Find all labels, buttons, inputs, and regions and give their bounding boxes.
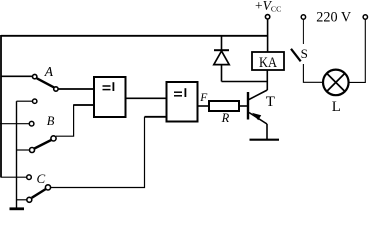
wire: U1 output to U2 input <box>126 97 167 99</box>
lamp L <box>323 70 349 96</box>
wire: lamp to right terminal <box>349 19 366 82</box>
svg-text:A: A <box>44 64 54 79</box>
wire: diode anode to collector node <box>222 81 268 83</box>
switch B <box>0 99 56 153</box>
svg-text:T: T <box>266 94 275 110</box>
terminal 220V right <box>363 15 367 19</box>
wire: second bus with ground <box>16 101 18 208</box>
wire: switch S to lamp <box>303 64 323 82</box>
wire: left vertical bus <box>0 35 2 178</box>
wire: emitter down <box>266 124 268 140</box>
gate U2 (=1) <box>167 82 198 122</box>
ground (emitter) <box>250 139 280 141</box>
wire: U2 output to resistor <box>198 105 210 107</box>
gate U1 (=1) <box>94 77 126 117</box>
svg-text:+VCC: +VCC <box>255 0 281 14</box>
svg-text:220 V: 220 V <box>316 9 352 25</box>
switch C <box>1 175 51 202</box>
switch A <box>1 74 94 91</box>
svg-text:L: L <box>332 99 341 115</box>
wire: to switch S <box>302 19 304 44</box>
wire: KA bottom to collector <box>266 70 268 90</box>
svg-text:C: C <box>37 171 46 186</box>
transistor T <box>248 90 267 124</box>
switch S blade <box>291 49 301 62</box>
resistor R <box>209 101 248 111</box>
svg-text:F: F <box>199 92 208 104</box>
svg-text:S: S <box>301 46 308 61</box>
wire: switch C to U2 lower input <box>51 117 167 188</box>
terminal 220V left <box>301 15 305 19</box>
svg-text:R: R <box>221 111 230 125</box>
ground (main) <box>10 207 25 210</box>
svg-text:B: B <box>47 114 55 128</box>
wire: top +Vcc rail <box>1 35 268 37</box>
terminal +Vcc <box>265 15 269 52</box>
svg-text:KA: KA <box>259 55 277 71</box>
relay coil KA <box>252 52 284 71</box>
wire: switch B to U1 lower input <box>56 105 94 136</box>
diode VD <box>214 36 229 82</box>
